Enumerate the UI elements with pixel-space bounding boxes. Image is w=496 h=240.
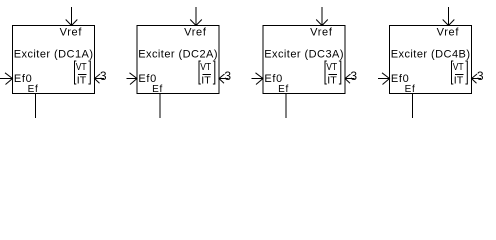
svg-text:Exciter (DC3A): Exciter (DC3A): [264, 49, 343, 61]
svg-text:IT: IT: [454, 75, 463, 86]
separator bar between VT and IT: [329, 74, 338, 76]
svg-text:Vref: Vref: [184, 27, 207, 39]
wire Ef output (bottom stub): [412, 94, 414, 119]
svg-text:Ef: Ef: [405, 84, 415, 95]
svg-text:VT: VT: [453, 62, 464, 73]
exciter DC3A body box: [263, 26, 345, 94]
separator bar between VT and IT: [78, 74, 87, 76]
wire Vref input (top): [195, 7, 197, 26]
svg-text:Ef: Ef: [28, 84, 38, 95]
arrowhead VT/IT into box: [472, 74, 478, 83]
arrowhead Ef0 into box: [130, 73, 138, 85]
arrowhead Ef0 into box: [382, 73, 390, 85]
arrowhead Vref into box: [66, 20, 78, 26]
svg-text:3: 3: [224, 69, 231, 83]
exciter block U2 (DC2A): [127, 7, 232, 118]
arrowhead Vref into box: [190, 20, 202, 26]
bracket right of [VT IT] vector: [88, 61, 90, 84]
bracket left of [VT IT] vector: [199, 61, 201, 84]
svg-text:Ef: Ef: [278, 84, 288, 95]
svg-text:3: 3: [477, 69, 484, 83]
wire Vref input (top): [71, 7, 73, 26]
exciter DC2A body box: [137, 26, 219, 94]
arrowhead Vref into box: [316, 20, 328, 26]
wire Ef0 input (left): [0, 78, 13, 80]
wire Vref input (top): [321, 7, 323, 26]
svg-text:IT: IT: [201, 75, 210, 86]
bracket right of [VT IT] vector: [465, 61, 467, 84]
exciter DC4B body box: [390, 26, 472, 94]
svg-text:Exciter (DC4B): Exciter (DC4B): [391, 49, 470, 61]
svg-text:3: 3: [350, 69, 357, 83]
svg-text:VT: VT: [200, 62, 211, 73]
wire Ef0 input (left): [378, 78, 390, 80]
wire Vref input (top): [448, 7, 450, 26]
wire VT/IT input (right): [219, 78, 229, 80]
svg-text:VT: VT: [76, 62, 87, 73]
bracket right of [VT IT] vector: [339, 61, 341, 84]
wire VT/IT input (right): [472, 78, 482, 80]
bracket left of [VT IT] vector: [75, 61, 77, 84]
wire Ef output (bottom stub): [35, 94, 37, 119]
arrowhead Ef0 into box: [5, 73, 13, 85]
exciter block U3 (DC3A): [252, 7, 358, 118]
arrowhead VT/IT into box: [219, 74, 225, 83]
arrowhead Vref into box: [443, 20, 455, 26]
exciter DC1A body box: [13, 26, 95, 94]
arrowhead Ef0 into box: [256, 73, 264, 85]
wire Ef output (bottom stub): [159, 94, 161, 119]
arrowhead VT/IT into box: [345, 74, 351, 83]
svg-text:Vref: Vref: [310, 27, 333, 39]
separator bar between VT and IT: [203, 74, 212, 76]
svg-text:Exciter (DC2A): Exciter (DC2A): [138, 49, 217, 61]
svg-text:Vref: Vref: [60, 27, 83, 39]
svg-text:Ef: Ef: [152, 84, 162, 95]
wire VT/IT input (right): [345, 78, 355, 80]
separator bar between VT and IT: [455, 74, 464, 76]
svg-text:3: 3: [100, 69, 107, 83]
arrowhead VT/IT into box: [95, 74, 101, 83]
exciter block U1 (DC1A): [0, 7, 107, 118]
svg-text:Vref: Vref: [437, 27, 460, 39]
svg-text:VT: VT: [326, 62, 337, 73]
wire VT/IT input (right): [95, 78, 105, 80]
svg-text:IT: IT: [77, 75, 86, 86]
bracket left of [VT IT] vector: [325, 61, 327, 84]
bracket right of [VT IT] vector: [213, 61, 215, 84]
wire Ef0 input (left): [252, 78, 264, 80]
svg-text:Exciter (DC1A): Exciter (DC1A): [14, 49, 93, 61]
exciter block U4 (DC4B): [378, 7, 484, 118]
wire Ef0 input (left): [127, 78, 138, 80]
svg-text:IT: IT: [327, 75, 336, 86]
bracket left of [VT IT] vector: [452, 61, 454, 84]
wire Ef output (bottom stub): [285, 94, 287, 119]
